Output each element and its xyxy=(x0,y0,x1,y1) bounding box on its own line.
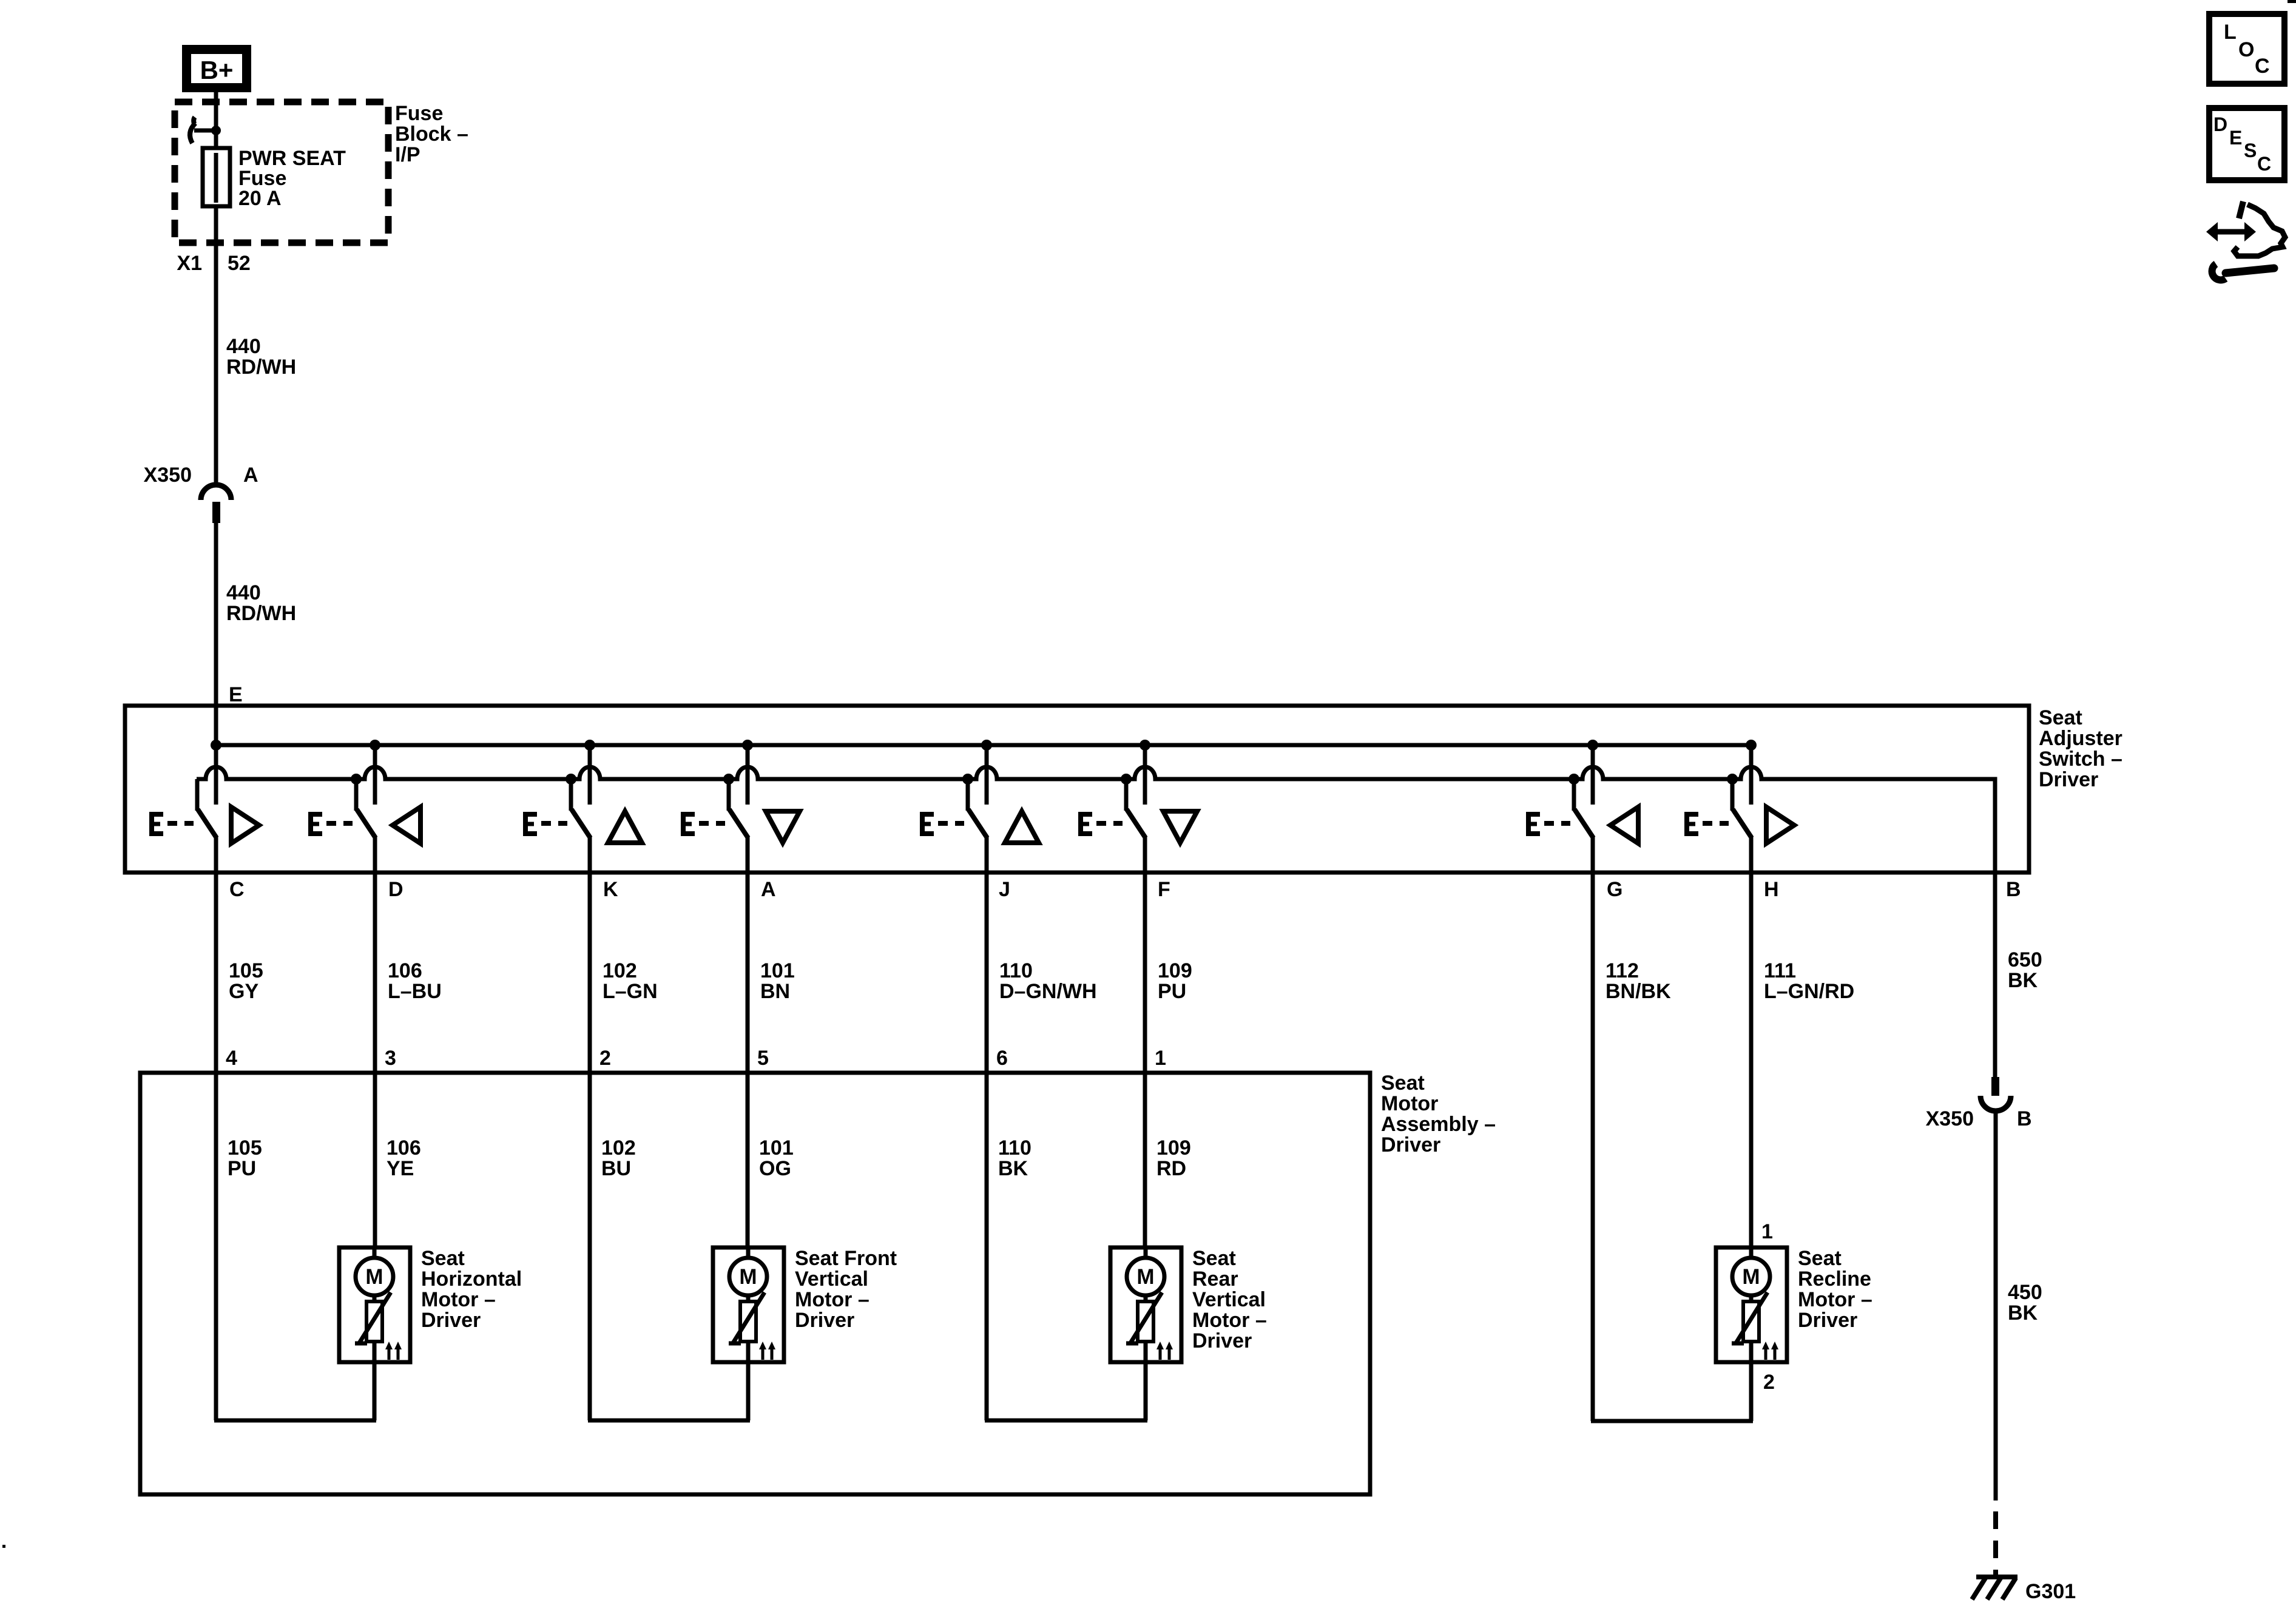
svg-text:Driver: Driver xyxy=(2039,768,2098,791)
svg-text:Adjuster: Adjuster xyxy=(2039,727,2122,750)
ground bus with wire hops xyxy=(197,767,1995,873)
power feed B+ xyxy=(182,45,251,92)
svg-text:650: 650 xyxy=(2008,948,2042,971)
connector X350 pin B xyxy=(1980,1077,2011,1111)
fuse block label xyxy=(395,102,468,166)
wire pin C circuit 105 xyxy=(214,836,218,1420)
svg-text:2: 2 xyxy=(1763,1371,1775,1394)
svg-text:Seat: Seat xyxy=(2039,706,2082,729)
svg-text:M: M xyxy=(1742,1265,1760,1289)
svg-text:D–GN/WH: D–GN/WH xyxy=(999,980,1097,1003)
wire label 106 YE xyxy=(387,1136,421,1180)
wire pin H circuit 111 xyxy=(1749,836,1754,1247)
svg-text:110: 110 xyxy=(999,959,1033,982)
svg-text:BK: BK xyxy=(998,1157,1028,1180)
svg-text:Assembly –: Assembly – xyxy=(1381,1113,1496,1136)
svg-text:E: E xyxy=(229,683,243,706)
svg-text:B: B xyxy=(2006,878,2021,901)
fuse clip xyxy=(190,117,221,143)
svg-text:B+: B+ xyxy=(200,56,234,84)
svg-text:Rear: Rear xyxy=(1192,1268,1238,1291)
svg-text:Seat: Seat xyxy=(421,1247,465,1270)
svg-text:C: C xyxy=(2257,153,2271,175)
motor M3 seat rear vertical xyxy=(1110,1247,1181,1362)
svg-text:BK: BK xyxy=(2008,969,2038,992)
wire pin2 to motor M2 xyxy=(588,1419,750,1423)
motor M2 seat front vertical xyxy=(713,1247,784,1362)
svg-text:Motor –: Motor – xyxy=(795,1288,869,1311)
motor M4 seat recline label xyxy=(1798,1247,1872,1332)
svg-text:BN: BN xyxy=(760,980,790,1003)
svg-text:L–BU: L–BU xyxy=(388,980,442,1003)
page mark bottom left xyxy=(2,1545,5,1548)
connector X350 pin A xyxy=(201,485,231,523)
svg-text:J: J xyxy=(999,878,1010,901)
svg-text:440: 440 xyxy=(226,335,261,358)
X350 A labels xyxy=(144,464,258,487)
motor M2 seat front vertical label xyxy=(795,1247,897,1332)
svg-text:F: F xyxy=(1158,878,1170,901)
connector X1 pin 52 labels xyxy=(177,252,250,275)
svg-text:Driver: Driver xyxy=(1192,1329,1252,1352)
svg-text:GY: GY xyxy=(229,980,258,1003)
svg-text:H: H xyxy=(1764,878,1779,901)
wire label 101 BN xyxy=(760,959,795,1003)
svg-text:Switch –: Switch – xyxy=(2039,748,2122,771)
svg-text:RD/WH: RD/WH xyxy=(226,602,296,625)
svg-text:101: 101 xyxy=(760,959,795,982)
removal direction icon car outline xyxy=(2234,201,2285,256)
svg-text:BU: BU xyxy=(601,1157,631,1180)
svg-text:I/P: I/P xyxy=(395,143,420,166)
fuse PWR SEAT 20 A xyxy=(203,148,230,245)
svg-text:111: 111 xyxy=(1764,959,1796,982)
svg-text:1: 1 xyxy=(1155,1047,1166,1070)
switch A xyxy=(681,740,800,843)
svg-text:20 A: 20 A xyxy=(238,187,282,210)
svg-text:X350: X350 xyxy=(144,464,192,487)
svg-text:RD: RD xyxy=(1156,1157,1186,1180)
svg-text:D: D xyxy=(388,878,403,901)
svg-text:Block –: Block – xyxy=(395,123,468,146)
wire 450 BK X350 to ground xyxy=(1994,1110,1998,1501)
wire label 102 L–GN xyxy=(603,959,658,1003)
dashed wire to ground xyxy=(1993,1511,1998,1578)
wire label 650 BK xyxy=(2008,948,2042,992)
svg-text:110: 110 xyxy=(998,1136,1032,1160)
svg-text:105: 105 xyxy=(229,959,263,982)
svg-text:A: A xyxy=(243,464,258,487)
wire label 440 RD/WH xyxy=(226,335,296,379)
switch F xyxy=(1079,740,1197,843)
svg-text:Seat: Seat xyxy=(1381,1072,1425,1095)
svg-text:A: A xyxy=(761,878,776,901)
motor assembly label xyxy=(1381,1072,1496,1156)
svg-text:101: 101 xyxy=(759,1136,794,1160)
svg-text:Recline: Recline xyxy=(1798,1268,1871,1291)
svg-text:440: 440 xyxy=(226,581,261,604)
LOC icon box xyxy=(2209,14,2284,84)
svg-text:Motor –: Motor – xyxy=(1192,1309,1267,1332)
wire label 109 RD xyxy=(1156,1136,1191,1180)
switch box label xyxy=(2039,706,2122,791)
svg-text:L–GN: L–GN xyxy=(603,980,658,1003)
svg-text:Fuse: Fuse xyxy=(395,102,443,125)
wire label 110 D–GN/WH xyxy=(999,959,1097,1003)
svg-text:K: K xyxy=(603,878,618,901)
svg-text:D: D xyxy=(2213,113,2227,135)
svg-text:4: 4 xyxy=(226,1047,237,1070)
switch D xyxy=(309,740,420,843)
wire 650 BK pin B to X350 xyxy=(1993,873,1997,1078)
wire label 440 RD/WH xyxy=(226,581,296,625)
svg-text:OG: OG xyxy=(759,1157,791,1180)
svg-text:Vertical: Vertical xyxy=(795,1268,868,1291)
wire pin D circuit 106 xyxy=(373,836,377,1247)
svg-text:M: M xyxy=(739,1265,757,1289)
svg-text:Horizontal: Horizontal xyxy=(421,1268,522,1291)
seat adjuster switch box xyxy=(125,706,2029,873)
B+ feed bus xyxy=(216,743,1751,748)
svg-text:O: O xyxy=(2238,38,2254,61)
svg-text:450: 450 xyxy=(2008,1281,2042,1304)
svg-text:G301: G301 xyxy=(2025,1580,2076,1603)
svg-text:PU: PU xyxy=(1158,980,1186,1003)
wire label 111 L–GN/RD xyxy=(1764,959,1854,1003)
motor M1 seat horizontal xyxy=(339,1247,410,1362)
wire label 450 BK xyxy=(2008,1281,2042,1325)
wire pin G to motor M4 xyxy=(1591,1419,1753,1423)
svg-text:52: 52 xyxy=(228,252,251,275)
svg-text:PU: PU xyxy=(228,1157,256,1180)
svg-text:109: 109 xyxy=(1156,1136,1191,1160)
svg-text:Driver: Driver xyxy=(1381,1133,1440,1156)
svg-text:Driver: Driver xyxy=(421,1309,481,1332)
svg-text:Seat Front: Seat Front xyxy=(795,1247,897,1270)
ground G301 xyxy=(1972,1577,2017,1599)
motor M1 seat horizontal label xyxy=(421,1247,522,1332)
removal direction icon arrow xyxy=(2206,222,2256,241)
motor M4 seat recline xyxy=(1716,1247,1787,1362)
wire pin4 to motor M1 xyxy=(214,1419,376,1423)
switch C xyxy=(150,740,259,843)
wire label 106 L–BU xyxy=(388,959,442,1003)
wire B+ to fuse xyxy=(214,92,218,149)
wire 440 RD/WH X350 to switch xyxy=(214,522,218,805)
svg-text:M: M xyxy=(1136,1265,1154,1289)
svg-text:L–GN/RD: L–GN/RD xyxy=(1764,980,1854,1003)
wire pin6 to motor M3 xyxy=(985,1419,1147,1423)
wire pin J circuit 110 xyxy=(985,836,989,1420)
DESC icon box xyxy=(2209,108,2284,180)
svg-text:YE: YE xyxy=(387,1157,414,1180)
seat motor assembly box xyxy=(140,1073,1370,1494)
svg-text:Vertical: Vertical xyxy=(1192,1288,1266,1311)
page mark top right xyxy=(2288,0,2296,3)
wire label 101 OG xyxy=(759,1136,794,1180)
svg-text:S: S xyxy=(2244,140,2257,161)
wire pin A circuit 101 xyxy=(746,836,750,1247)
svg-text:5: 5 xyxy=(757,1047,769,1070)
svg-text:6: 6 xyxy=(996,1047,1008,1070)
X350 B labels xyxy=(1926,1107,2032,1130)
wire pin G circuit 112 xyxy=(1591,836,1595,1421)
svg-text:M: M xyxy=(365,1265,383,1289)
svg-text:C: C xyxy=(229,878,245,901)
svg-text:106: 106 xyxy=(388,959,422,982)
motor M3 seat rear vertical label xyxy=(1192,1247,1267,1352)
svg-text:L: L xyxy=(2224,21,2237,44)
svg-text:105: 105 xyxy=(228,1136,262,1160)
svg-text:E: E xyxy=(2229,127,2242,149)
svg-text:Seat: Seat xyxy=(1192,1247,1236,1270)
svg-text:106: 106 xyxy=(387,1136,421,1160)
svg-text:Motor: Motor xyxy=(1381,1092,1438,1115)
svg-text:Seat: Seat xyxy=(1798,1247,1842,1270)
wire label 110 BK xyxy=(998,1136,1032,1180)
wire pin K circuit 102 xyxy=(588,836,592,1420)
wire label 105 PU xyxy=(228,1136,262,1180)
motor bottom wires xyxy=(373,1362,377,1420)
svg-text:3: 3 xyxy=(385,1047,396,1070)
svg-text:Motor –: Motor – xyxy=(1798,1288,1872,1311)
wire label 102 BU xyxy=(601,1136,636,1180)
svg-text:109: 109 xyxy=(1158,959,1192,982)
fuse label xyxy=(238,147,346,210)
svg-text:2: 2 xyxy=(599,1047,611,1070)
wire label 112 BN/BK xyxy=(1606,959,1671,1003)
svg-text:BK: BK xyxy=(2008,1301,2038,1325)
wire pin F circuit 109 xyxy=(1143,836,1147,1247)
svg-text:RD/WH: RD/WH xyxy=(226,356,296,379)
svg-text:Motor –: Motor – xyxy=(421,1288,496,1311)
svg-text:112: 112 xyxy=(1606,959,1639,982)
svg-text:C: C xyxy=(2255,55,2270,78)
svg-text:B: B xyxy=(2017,1107,2032,1130)
svg-text:X1: X1 xyxy=(177,252,202,275)
switch J xyxy=(920,740,1039,843)
svg-text:Driver: Driver xyxy=(1798,1309,1857,1332)
wire 440 RD/WH fuse to X350 xyxy=(214,243,218,484)
switch H xyxy=(1685,740,1794,843)
switch G xyxy=(1527,740,1638,843)
wire label 109 PU xyxy=(1158,959,1192,1003)
svg-text:BN/BK: BN/BK xyxy=(1606,980,1671,1003)
svg-text:G: G xyxy=(1607,878,1622,901)
svg-text:Driver: Driver xyxy=(795,1309,854,1332)
wrench icon xyxy=(2212,264,2274,280)
svg-text:1: 1 xyxy=(1761,1220,1773,1243)
svg-text:X350: X350 xyxy=(1926,1107,1974,1130)
svg-text:102: 102 xyxy=(601,1136,636,1160)
svg-text:102: 102 xyxy=(603,959,637,982)
wire label 105 GY xyxy=(229,959,263,1003)
switch K xyxy=(524,740,642,843)
switch pin labels xyxy=(229,878,2021,901)
fuse block I/P dashed outline xyxy=(175,102,388,243)
